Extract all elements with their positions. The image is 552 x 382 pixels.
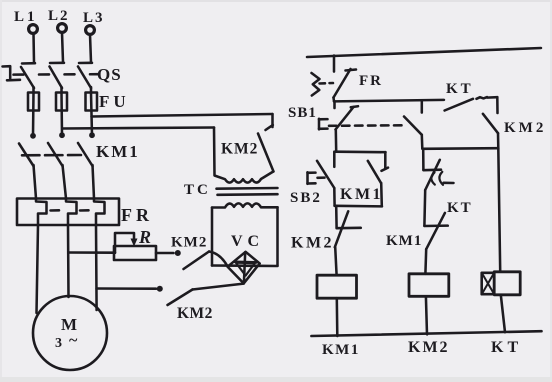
svg-text:KM1: KM1 [322, 342, 360, 358]
FR heater element 1 [36, 199, 47, 226]
wire R to KM2 contact [156, 252, 174, 255]
linked contact of SB1 (NO, middle branch) [404, 117, 422, 149]
node L3 [83, 10, 105, 34]
svg-text:KM1: KM1 [340, 186, 383, 203]
wire SB1 to parallel branch [335, 130, 338, 152]
motor lead 3 [95, 225, 98, 310]
svg-text:KM2: KM2 [221, 141, 258, 158]
timer contact KT (NO, instantaneous, horizontal) [445, 97, 498, 113]
wire L2 terminal to QS [62, 33, 63, 62]
bottom supply rail [311, 331, 541, 336]
svg-text:FR: FR [121, 205, 153, 225]
coil KM2 [409, 274, 449, 335]
contactor KM2 aux contact (NO, right branch) [483, 114, 498, 149]
wire right branch down to KT coil [498, 148, 500, 271]
motor lead 2 [67, 225, 70, 297]
wire middle branch to right branch [423, 147, 499, 150]
wire tap L3 to KM2 braking contact (upper horizontal) [92, 114, 273, 117]
FR link dash 1 [51, 209, 60, 212]
fuse FU pole 1 [28, 93, 39, 136]
svg-text:KM1: KM1 [96, 142, 140, 161]
top supply rail [307, 48, 541, 57]
svg-text:TC: TC [184, 182, 211, 198]
wire to KT delayed contact [422, 149, 425, 170]
svg-text:FR: FR [359, 73, 383, 89]
pushbutton SB2 (NO start) [308, 152, 335, 206]
wire L1 terminal to QS [32, 34, 35, 63]
svg-text:L2: L2 [48, 8, 70, 24]
motor M [33, 296, 107, 370]
svg-text:KM2: KM2 [171, 235, 207, 251]
transformer TC core lines [217, 188, 278, 195]
contactor KM1 main pole 2 [48, 143, 66, 199]
svg-text:KT: KT [491, 339, 522, 356]
switch QS pole 2 [50, 63, 65, 93]
KM2 braking contact upper (NO) [175, 250, 228, 269]
wire motor lead3 to lower KM2 contact [97, 287, 156, 290]
stub to linked contact of SB1 [421, 101, 424, 113]
svg-text:KT: KT [446, 81, 474, 97]
motor lead 1 [37, 225, 39, 313]
wire FR to branch line [332, 98, 335, 102]
contactor KM1 main pole 1 [19, 144, 36, 199]
svg-text:3: 3 [55, 336, 62, 351]
svg-text:KT: KT [447, 200, 473, 216]
FR link dash 2 [80, 209, 89, 212]
junction dot L1 [30, 133, 36, 139]
svg-text:KM2: KM2 [504, 120, 546, 136]
switch QS pole 1 [21, 63, 35, 93]
svg-text:R: R [138, 227, 151, 247]
SB1 mechanical link (dashed) [329, 124, 404, 127]
FR heater element 3 [94, 199, 105, 226]
relay contact FR (NC) [312, 69, 357, 98]
wire tap L2 to TC primary (lower horizontal) [63, 128, 215, 129]
contactor KM2 interlock contact (NC) [335, 211, 361, 275]
wire motor lead2 to resistor R [68, 251, 115, 254]
resistor R body [114, 246, 156, 260]
coil KT (time relay) [482, 272, 521, 332]
fuse FU pole 3 [86, 93, 98, 136]
KM2 braking contact lower (NO) [157, 284, 244, 305]
timer contact KT (NC, delayed) [423, 160, 453, 190]
contactor KM1 main pole 3 [78, 143, 94, 199]
junction dot L2 [59, 132, 65, 138]
transformer TC secondary winding (on VC box top) [212, 203, 278, 207]
svg-text:KM2: KM2 [408, 339, 450, 356]
resistor R tap bracket with arrow [115, 233, 138, 253]
wire to KM2 interlock [335, 206, 338, 228]
svg-text:FU: FU [99, 92, 130, 111]
node L1 [14, 9, 38, 33]
pushbutton SB1 (NC stop) [319, 101, 358, 129]
switch QS pole 3 [78, 63, 92, 93]
QS operating handle [3, 66, 21, 80]
wire L3 terminal to QS [90, 35, 91, 62]
svg-text:KM2: KM2 [291, 235, 334, 252]
svg-text:SB1: SB1 [288, 105, 317, 121]
FR heater element 2 [66, 199, 77, 226]
svg-text:L1: L1 [14, 9, 38, 25]
contactor KM1 interlock contact (NC) [424, 213, 447, 274]
wire KT contact to KM1 interlock [423, 190, 426, 226]
node L2 [48, 8, 70, 32]
KM2 contact feeding TC (NO, middle column) [258, 114, 274, 172]
rectifier VC box [212, 207, 278, 266]
svg-text:KM2: KM2 [177, 305, 213, 322]
svg-text:VC: VC [231, 233, 264, 250]
branch wire to KT contact [334, 100, 444, 102]
svg-text:QS: QS [97, 65, 122, 84]
svg-text:L3: L3 [83, 10, 105, 26]
thermal relay FR heater box [17, 199, 119, 226]
coil KM1 [317, 275, 357, 336]
QS mechanical link (dashed) [14, 73, 99, 76]
junction dot L3 [89, 132, 95, 138]
wire rail to FR contact [333, 56, 336, 72]
wire parallel box bottom [335, 205, 382, 208]
contactor KM1 aux contact (NO self-holding) [368, 152, 388, 206]
KM1 mechanical link (dashed) [22, 154, 81, 157]
svg-text:KM1: KM1 [386, 233, 422, 249]
svg-text:SB2: SB2 [290, 190, 322, 206]
transformer TC primary winding [214, 128, 273, 183]
svg-text:~: ~ [69, 332, 78, 349]
fuse FU pole 2 [56, 93, 67, 136]
rectifier diode diamond [228, 252, 260, 284]
wire parallel box top [336, 150, 386, 153]
